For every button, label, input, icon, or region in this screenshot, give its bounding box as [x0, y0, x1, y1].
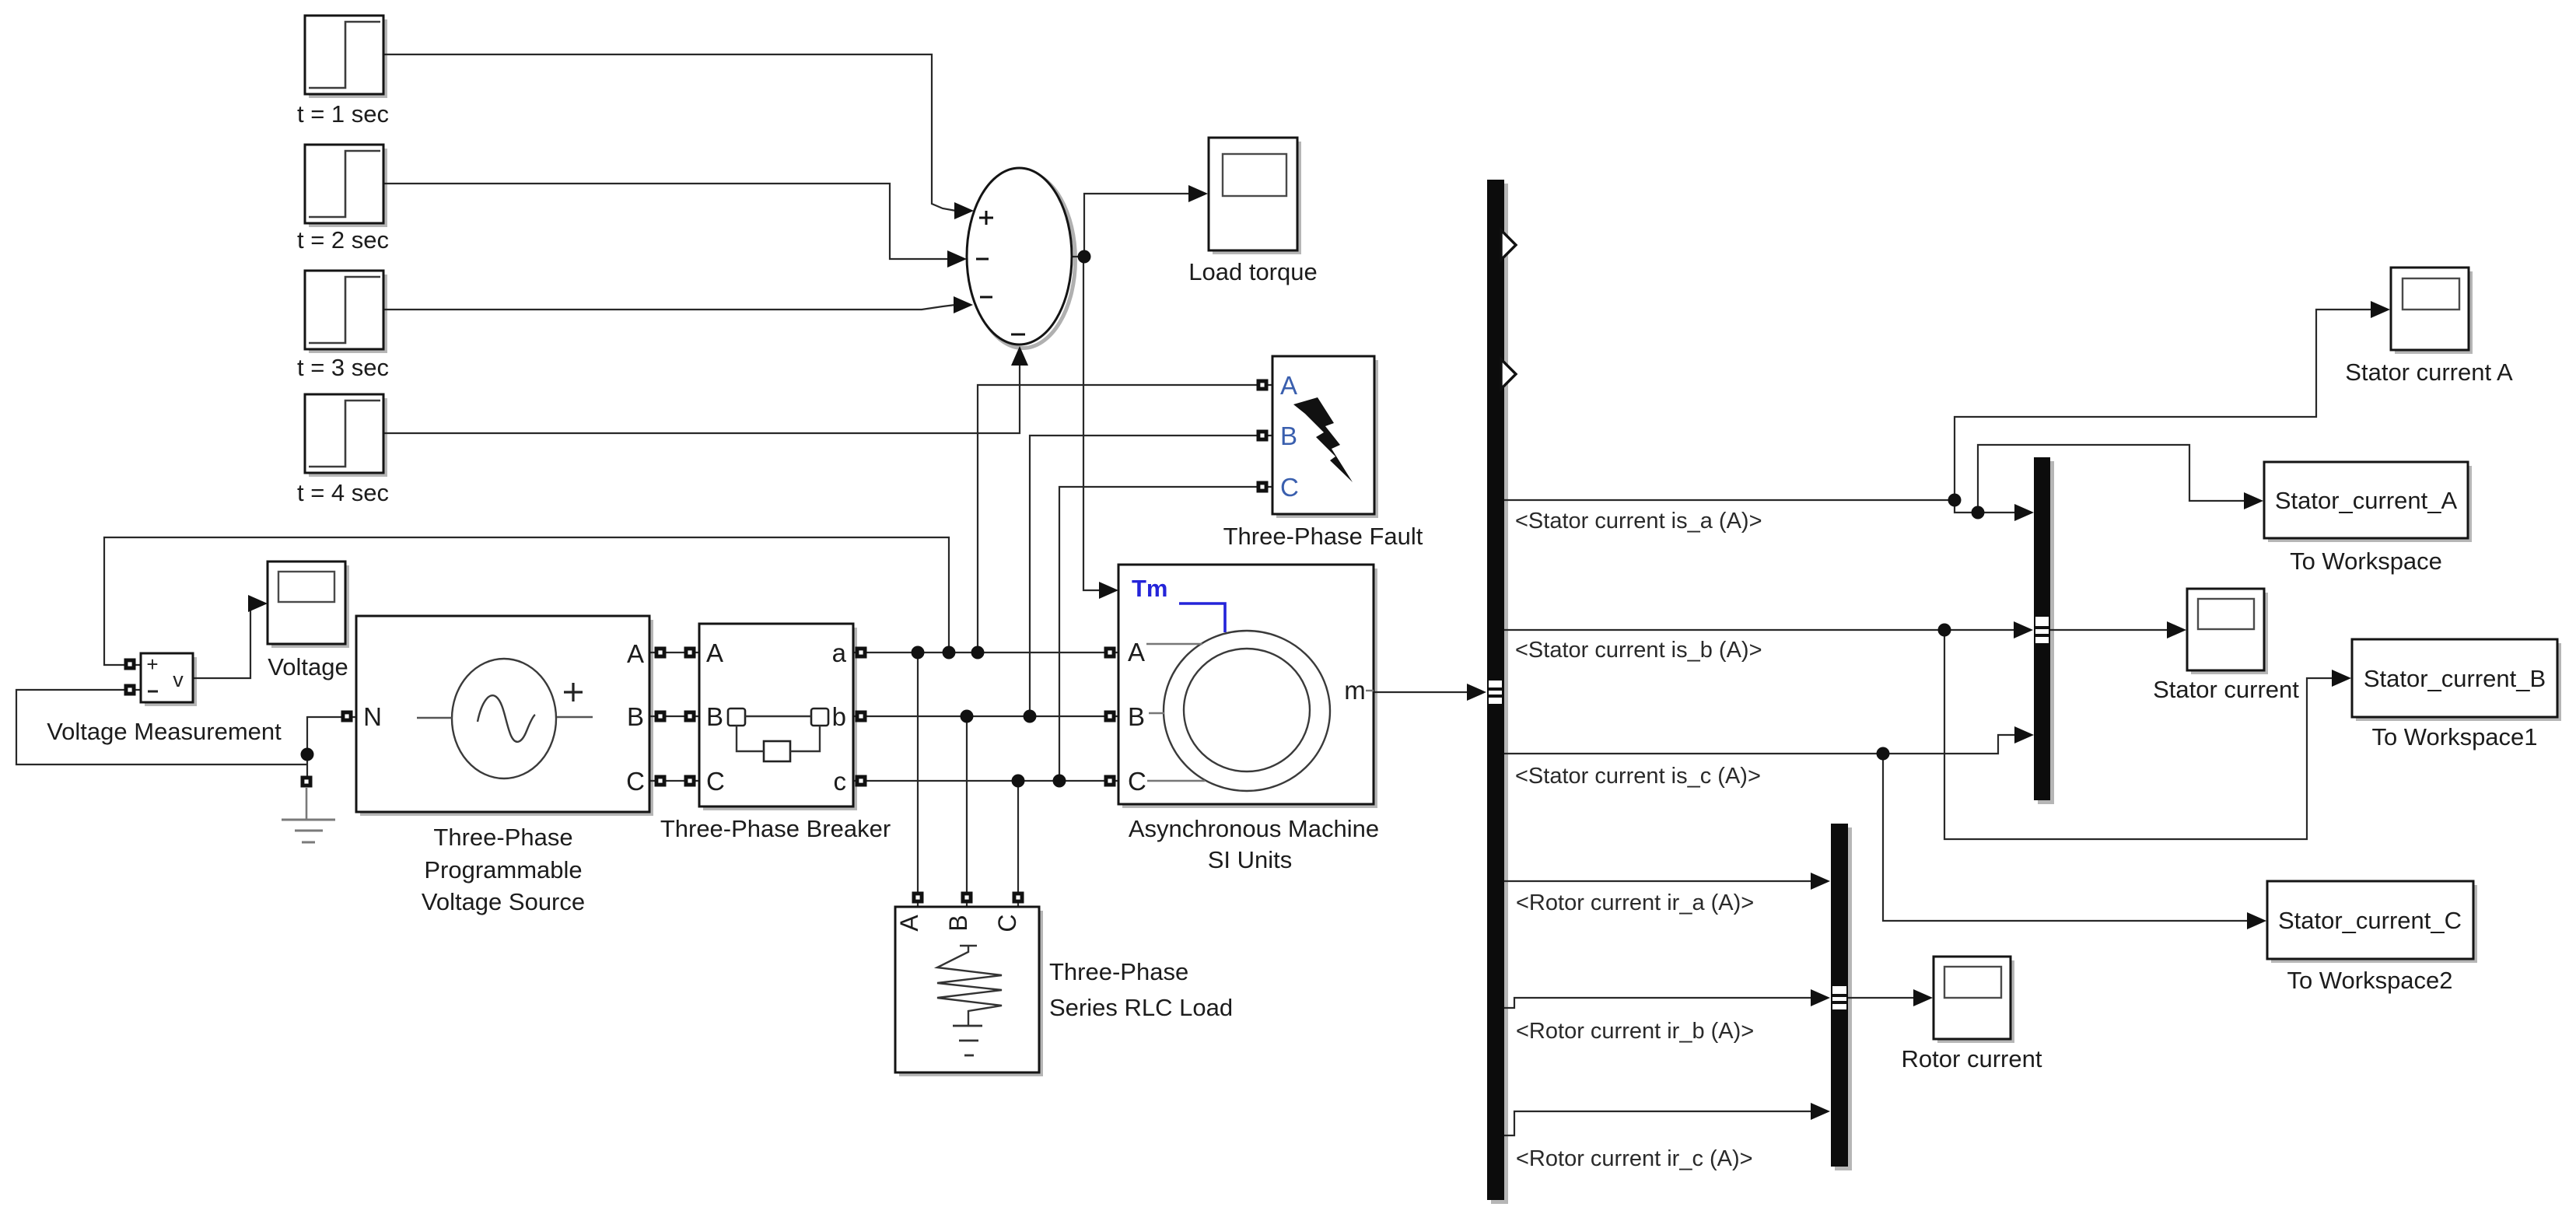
svg-text:To Workspace: To Workspace: [2290, 548, 2442, 575]
svg-text:Programmable: Programmable: [424, 856, 582, 883]
svg-text:v: v: [173, 668, 184, 691]
svg-text:B: B: [944, 915, 972, 931]
svg-text:t = 3 sec: t = 3 sec: [297, 354, 389, 381]
svg-text:<Rotor current ir_b (A)>: <Rotor current ir_b (A)>: [1516, 1019, 1754, 1044]
svg-text:Three-Phase: Three-Phase: [433, 824, 572, 851]
svg-text:Load torque: Load torque: [1188, 258, 1317, 285]
svg-text:<Stator current is_a (A)>: <Stator current is_a (A)>: [1515, 509, 1762, 534]
svg-text:B: B: [1128, 702, 1145, 731]
svg-text:Three-Phase: Three-Phase: [1049, 958, 1188, 985]
svg-text:B: B: [627, 702, 644, 731]
svg-text:Stator current A: Stator current A: [2345, 359, 2513, 386]
svg-text:<Stator current is_b (A)>: <Stator current is_b (A)>: [1515, 638, 1762, 663]
svg-text:B: B: [1280, 422, 1297, 450]
svg-text:Stator current: Stator current: [2153, 676, 2299, 703]
svg-text:a: a: [832, 638, 847, 667]
svg-text:Voltage Measurement: Voltage Measurement: [47, 718, 282, 745]
svg-text:m: m: [1344, 676, 1366, 705]
svg-text:A: A: [706, 638, 723, 667]
svg-text:SI Units: SI Units: [1208, 846, 1293, 873]
svg-text:To Workspace1: To Workspace1: [2371, 723, 2537, 750]
svg-text:t = 4 sec: t = 4 sec: [297, 479, 389, 506]
svg-text:b: b: [832, 702, 846, 731]
svg-text:A: A: [1280, 371, 1297, 400]
svg-text:t = 1 sec: t = 1 sec: [297, 100, 389, 128]
svg-text:To Workspace2: To Workspace2: [2287, 967, 2452, 994]
svg-text:<Rotor current ir_a (A)>: <Rotor current ir_a (A)>: [1516, 890, 1754, 915]
svg-text:Stator_current_C: Stator_current_C: [2278, 907, 2462, 934]
svg-text:Stator_current_B: Stator_current_B: [2364, 665, 2546, 692]
svg-text:Voltage Source: Voltage Source: [422, 888, 585, 915]
svg-text:Asynchronous Machine: Asynchronous Machine: [1129, 815, 1379, 842]
svg-text:Tm: Tm: [1132, 575, 1168, 602]
svg-text:Three-Phase Fault: Three-Phase Fault: [1223, 523, 1423, 550]
svg-text:Three-Phase Breaker: Three-Phase Breaker: [660, 815, 891, 842]
svg-text:t = 2 sec: t = 2 sec: [297, 226, 389, 254]
svg-text:Stator_current_A: Stator_current_A: [2275, 487, 2458, 514]
svg-text:A: A: [627, 639, 644, 668]
svg-text:B: B: [706, 702, 723, 731]
svg-text:C: C: [1280, 473, 1299, 502]
svg-text:Rotor current: Rotor current: [1902, 1045, 2042, 1072]
svg-text:c: c: [834, 767, 847, 796]
svg-text:C: C: [1128, 767, 1146, 796]
svg-text:N: N: [363, 702, 382, 731]
svg-text:C: C: [626, 767, 645, 796]
svg-text:A: A: [1128, 638, 1145, 666]
svg-text:<Rotor current ir_c (A)>: <Rotor current ir_c (A)>: [1516, 1146, 1753, 1171]
svg-text:A: A: [895, 915, 923, 932]
svg-text:Voltage: Voltage: [268, 653, 348, 680]
svg-text:C: C: [993, 914, 1021, 932]
svg-text:C: C: [706, 767, 725, 796]
svg-text:+: +: [146, 652, 158, 676]
svg-text:Series RLC Load: Series RLC Load: [1049, 994, 1233, 1021]
svg-text:<Stator current is_c (A)>: <Stator current is_c (A)>: [1515, 764, 1761, 789]
